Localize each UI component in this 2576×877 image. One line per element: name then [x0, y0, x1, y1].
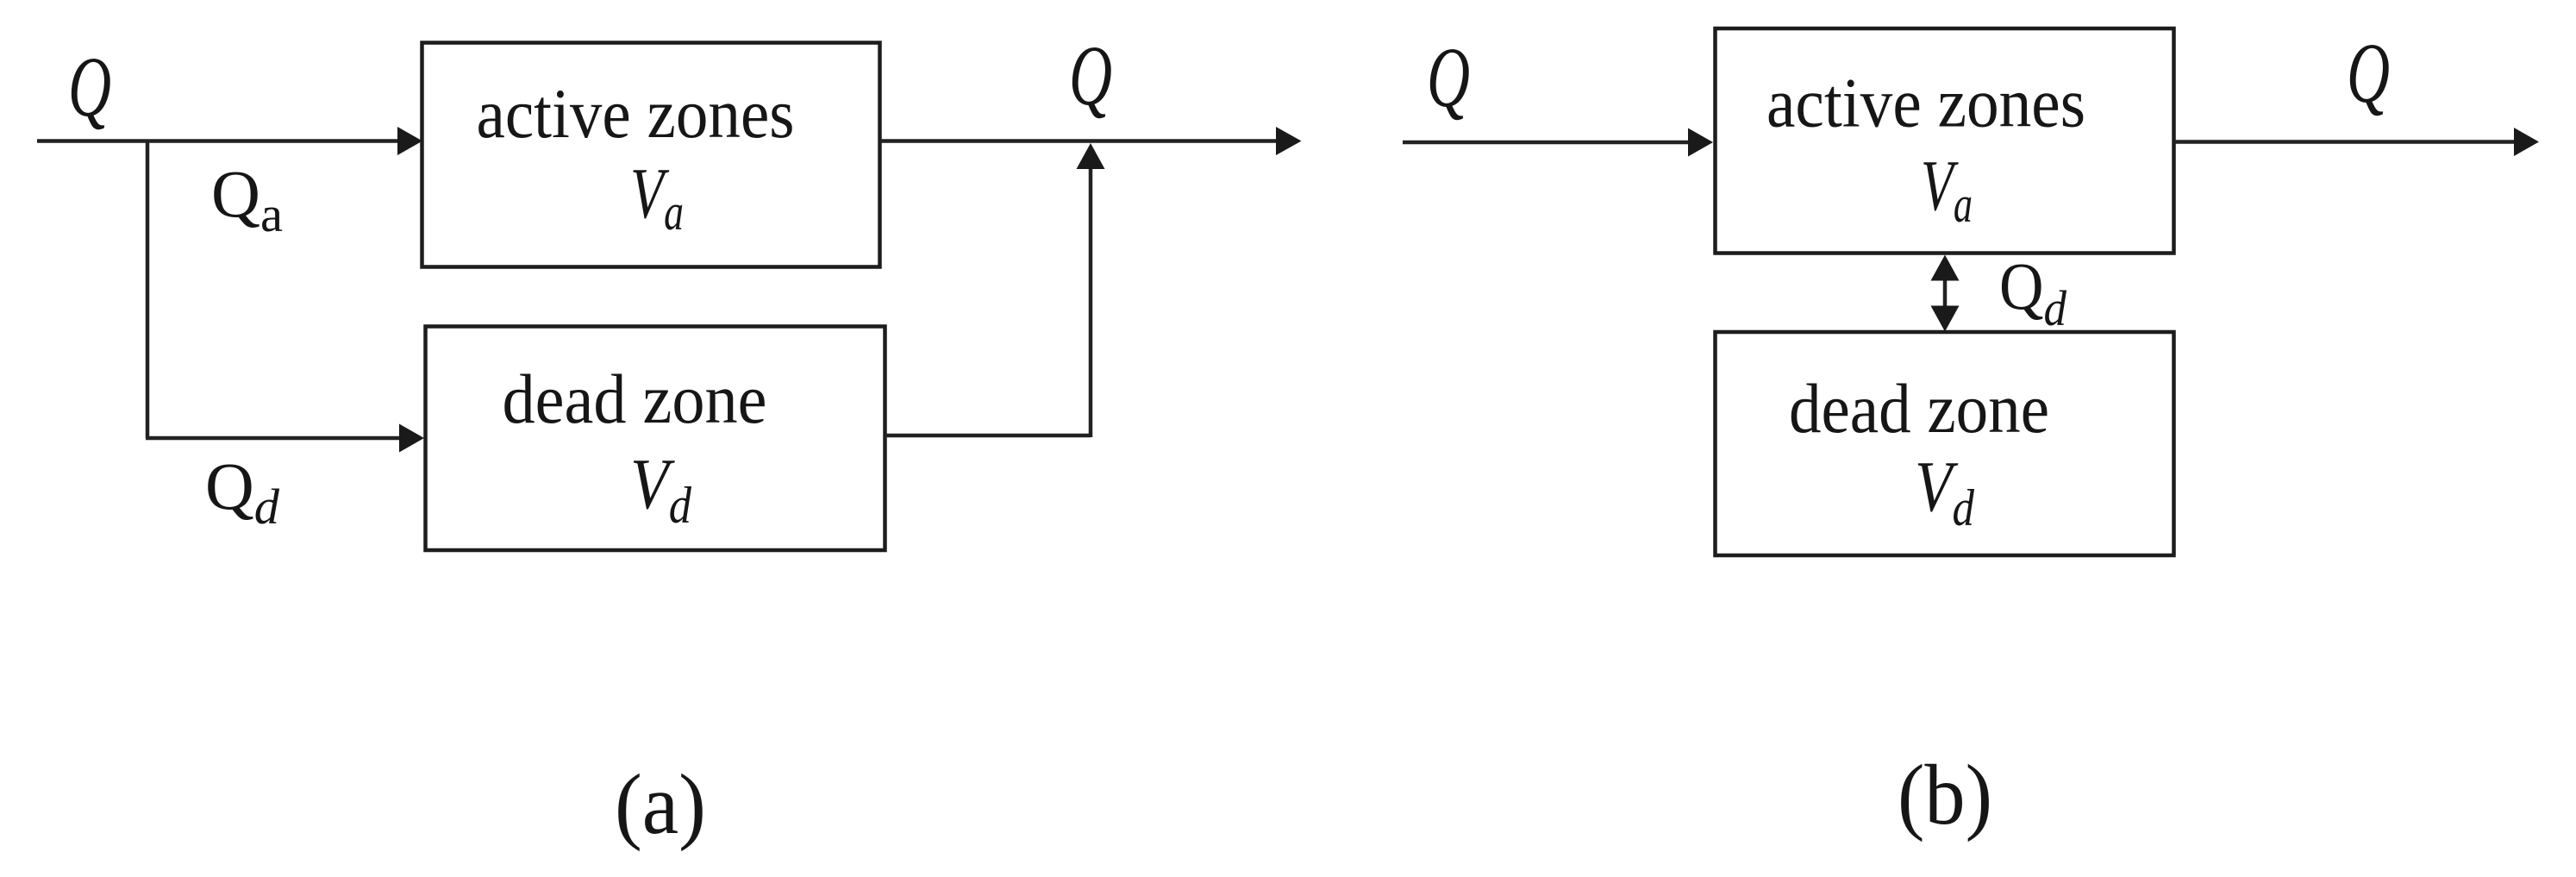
block: panel a active zones box Va: [422, 43, 880, 267]
wire: panel a output line: [880, 139, 1278, 143]
svg-text:dead zone: dead zone: [503, 360, 767, 438]
svg-text:dead zone: dead zone: [1789, 369, 2049, 448]
block: panel b active zones box Va: [1716, 28, 2174, 254]
arrowhead: panel a output: [1276, 127, 1302, 155]
svg-text:Q: Q: [1427, 29, 1470, 125]
svg-text:(a): (a): [615, 756, 706, 852]
arrowhead: panel b output: [2514, 128, 2539, 156]
block: panel b dead zone box Vd: [1716, 332, 2174, 555]
wire: panel a feedback vertical: [1089, 166, 1093, 437]
arrowhead: panel a feedback up into output line: [1077, 143, 1105, 169]
wire: panel a input line: [37, 139, 400, 143]
svg-text:active zones: active zones: [477, 74, 795, 153]
wire: panel b input line: [1403, 141, 1690, 145]
arrowhead: panel a into dead zone box: [399, 424, 424, 453]
block: panel a dead zone box Vd: [426, 327, 885, 551]
arrowhead: panel a input into active zones box: [397, 127, 422, 155]
wire: panel a feedback horizontal from dead zone: [885, 434, 1091, 438]
wire: panel a branch vertical: [146, 141, 150, 439]
wire: panel a branch horizontal to dead zone: [146, 436, 402, 441]
arrowhead: panel b down into dead zone: [1931, 306, 1960, 332]
svg-text:Q: Q: [2347, 25, 2390, 121]
wire: panel b double-arrow shaft between boxes: [1943, 276, 1948, 310]
svg-text:active zones: active zones: [1766, 64, 2085, 142]
wire: panel b output line: [2174, 140, 2517, 144]
svg-text:(b): (b): [1898, 747, 1992, 843]
svg-text:Q: Q: [68, 39, 111, 135]
arrowhead: panel b up into active zones: [1931, 255, 1960, 281]
svg-text:Q: Q: [1069, 28, 1112, 123]
arrowhead: panel b input into active zones box: [1688, 128, 1713, 157]
